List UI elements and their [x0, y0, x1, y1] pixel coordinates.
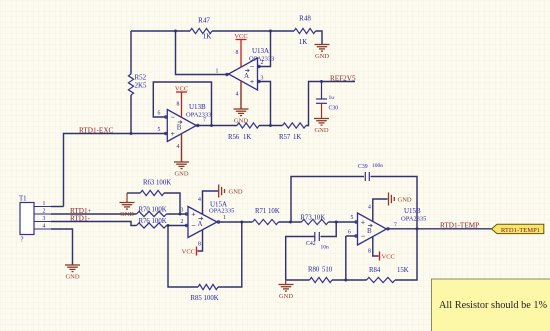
wire U13A pin3 down to R56-R57 node — [258, 82, 271, 126]
svg-text:REF2V5: REF2V5 — [330, 74, 356, 82]
svg-text:+: + — [361, 218, 365, 227]
resistor R57 — [283, 123, 307, 128]
VCC symbol U15B — [379, 252, 381, 261]
wire U15B pin6 stub — [346, 235, 358, 237]
svg-text:GND: GND — [315, 53, 329, 60]
wire U13A pin4 to ground — [240, 81, 242, 109]
svg-text:R57: R57 — [279, 134, 291, 141]
wire U15B output to RTD1-TEMP1 tag — [387, 228, 492, 230]
wire U13B pin4 to ground — [181, 134, 183, 162]
junction R47-R48 / U13A pin2 — [269, 30, 272, 33]
wire R70 to U15A pin3 — [167, 213, 189, 215]
svg-text:+: + — [250, 77, 254, 86]
wire RTD1- net with jog — [51, 222, 137, 226]
wire RTD1-EXC from T1 pin1 to U13B pin5 — [64, 134, 168, 207]
op-amp U13A — [229, 58, 258, 90]
capacitor C30 — [316, 82, 327, 119]
svg-text:RTD1-TEMP1: RTD1-TEMP1 — [501, 227, 540, 234]
ground below C42 R80 — [279, 285, 294, 292]
svg-text:U13B: U13B — [189, 103, 206, 111]
junction REF2V5 / C30 — [320, 80, 323, 83]
svg-text:+: + — [171, 129, 175, 138]
wire C39 left leg — [291, 177, 364, 223]
svg-text:B: B — [177, 124, 182, 132]
svg-text:GND: GND — [279, 293, 293, 300]
VCC symbol U13A — [236, 40, 247, 68]
resistor R70 — [137, 211, 167, 216]
svg-text:VCC: VCC — [382, 254, 395, 261]
wire U15B pin6 down to R80-R84 node — [345, 236, 347, 280]
resistor R56 — [237, 123, 259, 128]
svg-text:7: 7 — [394, 223, 397, 229]
VCC symbol U15A — [196, 247, 198, 256]
capacitor C39 — [365, 172, 369, 181]
svg-text:2K5: 2K5 — [135, 82, 148, 90]
svg-text:OPA2335: OPA2335 — [209, 208, 234, 215]
svg-text:VCC: VCC — [234, 33, 247, 40]
wire U15A pin2 node down to R85 — [168, 226, 198, 288]
junction R71-R73 / C39 — [289, 221, 292, 224]
svg-text:GND: GND — [229, 189, 243, 196]
wire R85 up to U15A output — [218, 222, 242, 287]
svg-text:C39: C39 — [358, 164, 368, 170]
resistor R48 — [294, 28, 316, 33]
wire U13B feedback loop output to pin6 — [153, 82, 211, 126]
svg-text:R63 100K: R63 100K — [143, 180, 171, 187]
wire U15A output to R71 — [217, 221, 253, 223]
svg-text:1: 1 — [216, 69, 219, 75]
svg-text:1K: 1K — [299, 38, 308, 46]
wire U13B output to R56 — [196, 125, 237, 127]
junction R47 net / U13A output — [174, 30, 177, 33]
svg-text:GND: GND — [120, 211, 134, 218]
svg-text:2: 2 — [43, 209, 46, 215]
svg-text:3: 3 — [43, 216, 46, 222]
resistor R52 — [128, 74, 133, 95]
wire R71 to R73 — [279, 221, 302, 223]
svg-text:RTD1-EXC: RTD1-EXC — [79, 126, 114, 134]
svg-text:GND: GND — [398, 197, 412, 204]
svg-text:5: 5 — [158, 127, 161, 133]
svg-text:510: 510 — [322, 267, 333, 274]
resistor R71 — [253, 219, 279, 224]
resistor R76 — [137, 223, 167, 228]
svg-text:6: 6 — [158, 111, 161, 117]
svg-text:5: 5 — [351, 215, 354, 221]
wire U15A pin4 to side ground — [203, 191, 219, 214]
ground below C30 — [314, 119, 329, 126]
resistor R47 — [190, 28, 212, 33]
ground below T1 — [65, 265, 80, 272]
svg-text:2: 2 — [181, 219, 184, 225]
wire R56 to R57 — [259, 125, 283, 127]
svg-text:4: 4 — [43, 224, 46, 230]
wire R76 to U15A pin2 — [167, 225, 189, 227]
pin 4 T1 — [34, 228, 51, 230]
svg-text:R56: R56 — [228, 134, 240, 141]
capacitor C42 — [315, 232, 320, 241]
op-amp U15A — [188, 207, 217, 238]
svg-text:R71 10K: R71 10K — [255, 208, 280, 215]
svg-text:R76 100K: R76 100K — [139, 218, 167, 225]
port tag RTD1-TEMP1 — [492, 224, 544, 233]
wire C39 right leg down to output — [371, 177, 418, 229]
svg-text:R85 100K: R85 100K — [191, 295, 219, 302]
ground U15A pin4 — [219, 185, 225, 198]
svg-text:4: 4 — [236, 92, 239, 98]
svg-text:A: A — [198, 220, 203, 228]
wire R52 to RTD1-EXC net — [130, 95, 132, 134]
wire U15A pin8 to VCC — [198, 230, 203, 251]
svg-text:C30: C30 — [329, 106, 339, 112]
wire T1 pin1 to RTD1-EXC corner — [51, 206, 64, 208]
svg-text:1K: 1K — [293, 134, 301, 141]
junction R56-R57 / U13A pin3 — [269, 124, 272, 127]
wire U13A pin2 to R47-R48 node — [258, 31, 271, 67]
junction R63 / U15A pin3 — [179, 213, 182, 216]
svg-text:R80: R80 — [308, 267, 320, 274]
svg-text:15K: 15K — [397, 267, 409, 274]
junction U15B output / C39 / R84 — [416, 227, 419, 230]
svg-text:−: − — [361, 232, 365, 241]
wire ground node to R80 — [286, 279, 310, 281]
junction R85 feedback / U15A pin2 — [167, 224, 170, 227]
svg-text:R84: R84 — [369, 267, 381, 274]
svg-text:A: A — [244, 72, 249, 80]
junction R73 node / C42 — [335, 221, 338, 224]
resistor R85 — [198, 284, 218, 289]
wire R63 down to U15A pin3 node — [164, 193, 180, 214]
wire U15B pin4 to side ground — [373, 199, 388, 221]
svg-text:GND: GND — [65, 274, 79, 281]
wire R48 to ground — [316, 31, 323, 44]
svg-text:GND: GND — [314, 127, 328, 134]
svg-text:8: 8 — [236, 50, 239, 56]
svg-text:2: 2 — [261, 60, 264, 66]
svg-text:4: 4 — [177, 144, 180, 150]
svg-text:4: 4 — [368, 205, 371, 211]
ground U15B pin4 — [389, 193, 395, 206]
svg-text:10n: 10n — [321, 245, 330, 251]
svg-text:R73 10K: R73 10K — [301, 215, 326, 222]
svg-text:8: 8 — [177, 102, 180, 108]
pin 3 T1 — [34, 221, 51, 223]
resistor R73 — [302, 219, 329, 224]
junction R80-R84 / U15B pin6 — [344, 279, 347, 282]
svg-text:−: − — [191, 221, 195, 230]
wire top net down to R52 — [130, 31, 132, 74]
svg-text:R52: R52 — [135, 74, 147, 82]
ground U13A — [234, 109, 249, 116]
wire ground node stem — [285, 280, 287, 284]
wire R73 to U15B pin5 — [329, 221, 358, 223]
wire U15B pin8 to VCC — [373, 237, 379, 256]
svg-text:U13A: U13A — [252, 47, 269, 55]
svg-text:OPA2333: OPA2333 — [186, 112, 211, 119]
op-amp U15B — [358, 213, 387, 245]
wire C42 left leg down to ground node — [286, 237, 315, 281]
ground below R63 — [120, 203, 135, 210]
wire R63 left to ground — [126, 193, 128, 202]
resistor R63 — [140, 190, 164, 195]
wire ground to R63 — [127, 192, 140, 194]
wire U13A output up to R47 net — [176, 31, 229, 75]
svg-text:1u: 1u — [329, 95, 335, 101]
svg-text:1K: 1K — [203, 33, 212, 41]
svg-text:4: 4 — [198, 197, 201, 203]
svg-text:?: ? — [21, 237, 24, 244]
svg-text:B: B — [367, 227, 372, 235]
op-amp U13B — [167, 110, 196, 142]
wire R80 to R84 — [332, 279, 367, 281]
svg-text:1: 1 — [223, 215, 226, 221]
wire R47 to R48 — [212, 30, 294, 32]
resistor R84 — [367, 277, 396, 282]
wire R47 left segment — [131, 30, 190, 32]
svg-text:+: + — [191, 210, 195, 219]
note box: All Resistor should be 1% — [432, 279, 550, 331]
wire R57 up to REF2V5 net — [306, 82, 355, 126]
svg-text:8: 8 — [198, 242, 201, 248]
svg-text:All Resistor should be 1%: All Resistor should be 1% — [439, 300, 548, 311]
svg-text:OPA2335: OPA2335 — [401, 216, 426, 223]
resistor R80 — [310, 277, 333, 282]
VCC symbol U13B — [176, 92, 187, 117]
svg-text:RTD1-TEMP: RTD1-TEMP — [440, 222, 479, 230]
ground U13B — [174, 162, 189, 169]
svg-text:7: 7 — [203, 118, 206, 124]
svg-text:VCC: VCC — [182, 249, 195, 256]
svg-text:T1: T1 — [19, 196, 27, 203]
svg-text:3: 3 — [261, 76, 264, 82]
pin 2 T1 — [34, 213, 51, 215]
wire T1 pin4 to ground — [51, 229, 73, 265]
svg-text:8: 8 — [368, 249, 371, 255]
wire R84 up to U15B output — [395, 229, 417, 280]
svg-text:1: 1 — [43, 201, 46, 207]
svg-text:R48: R48 — [299, 15, 311, 23]
svg-text:C42: C42 — [306, 241, 316, 247]
svg-text:R47: R47 — [198, 17, 210, 25]
svg-text:3: 3 — [181, 208, 184, 214]
connector T1 — [20, 203, 34, 235]
svg-text:−: − — [250, 62, 254, 71]
svg-text:GND: GND — [174, 171, 188, 178]
junction U15A output / R85 feedback — [240, 221, 243, 224]
svg-text:U15B: U15B — [404, 207, 421, 215]
svg-text:RTD1-: RTD1- — [70, 214, 91, 222]
junction U13B output / feedback — [210, 124, 213, 127]
svg-text:100n: 100n — [372, 163, 383, 169]
junction R52 / RTD1-EXC — [130, 132, 133, 135]
svg-text:−: − — [171, 113, 175, 122]
wire C42 right leg — [321, 222, 337, 237]
svg-text:R70 100K: R70 100K — [139, 207, 167, 214]
svg-text:1K: 1K — [243, 134, 251, 141]
pin 1 T1 — [34, 206, 51, 208]
wire RTD1+ net — [51, 213, 137, 215]
ground below R48 — [315, 45, 330, 52]
svg-text:6: 6 — [348, 230, 351, 236]
svg-text:VCC: VCC — [175, 86, 188, 93]
